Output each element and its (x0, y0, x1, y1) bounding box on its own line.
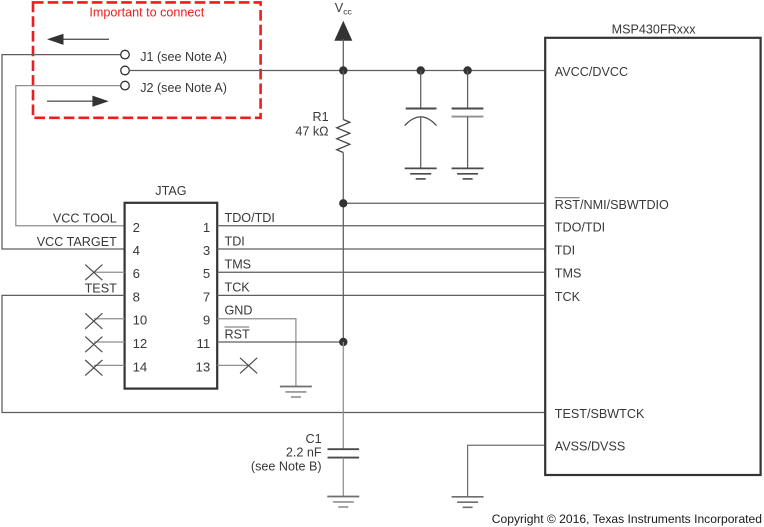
svg-text:AVSS/DVSS: AVSS/DVSS (555, 440, 625, 454)
no-connect X (pin 10) (85, 313, 102, 329)
svg-text:4: 4 (133, 243, 140, 258)
svg-text:7: 7 (203, 289, 210, 304)
svg-text:9: 9 (203, 313, 210, 328)
svg-text:2: 2 (133, 220, 140, 235)
ground (C1) (327, 497, 359, 508)
red highlight box (33, 2, 261, 117)
node: rail / R1 junction (339, 66, 347, 74)
svg-text:AVCC/DVCC: AVCC/DVCC (555, 65, 628, 79)
svg-text:47 kΩ: 47 kΩ (295, 125, 328, 139)
svg-text:J2 (see Note A): J2 (see Note A) (140, 81, 227, 95)
wire R1 bottom to RST node (342, 153, 344, 204)
wire pin13 stub (217, 364, 248, 366)
wire C2 to ground (420, 117, 422, 168)
MCU U1 MSP430FRxxx (545, 38, 760, 475)
wire pin10 stub (94, 318, 125, 320)
wire pin1 row (TDO/TDI) (217, 225, 545, 227)
Vcc arrow symbol (334, 21, 352, 41)
svg-text:MSP430FRxxx: MSP430FRxxx (612, 23, 697, 37)
svg-text:RST/NMI/SBWTDIO: RST/NMI/SBWTDIO (555, 198, 669, 212)
svg-text:12: 12 (133, 336, 148, 351)
svg-text:TMS: TMS (555, 267, 582, 281)
svg-text:TDI: TDI (555, 244, 575, 258)
svg-text:TCK: TCK (555, 290, 581, 304)
overline for RST (JTAG side) (225, 326, 250, 328)
svg-text:TEST: TEST (85, 282, 117, 296)
svg-text:R1: R1 (312, 110, 328, 124)
wire rail to R1 top (342, 71, 344, 120)
wire C3 to ground (467, 117, 469, 169)
arrow pointing right (47, 96, 109, 107)
wire AVSS/DVSS to ground (468, 445, 546, 497)
ground (JTAG GND pin 9) (280, 387, 312, 398)
C2 curved plate (405, 117, 437, 126)
capacitor C2 (polarized bypass) (405, 71, 437, 179)
node: rail / C2 junction (417, 66, 425, 74)
svg-text:8: 8 (133, 289, 140, 304)
arrow pointing left (47, 34, 109, 45)
svg-text:TCK: TCK (225, 281, 251, 295)
C3 top plate (452, 108, 484, 110)
svg-text:TDI: TDI (225, 234, 245, 248)
svg-text:TEST/SBWTCK: TEST/SBWTCK (555, 407, 645, 421)
svg-text:10: 10 (133, 313, 148, 328)
wire Vcc rail (center jumper pin to AVCC/DVCC) (129, 70, 545, 72)
svg-text:3: 3 (203, 243, 210, 258)
wire pin6 stub (94, 271, 125, 273)
jumper center pin (121, 66, 130, 75)
svg-text:C1: C1 (305, 432, 321, 446)
svg-text:TDO/TDI: TDO/TDI (225, 211, 275, 225)
no-connect X (pin 6) (85, 265, 102, 281)
jumper pin J1 (121, 50, 130, 59)
svg-text:VCC TOOL: VCC TOOL (53, 211, 117, 225)
svg-text:GND: GND (225, 304, 253, 318)
wire pin14 stub (94, 364, 125, 366)
resistor R1 (337, 120, 350, 153)
overline for RST (MCU pin) (555, 197, 580, 199)
ground (C3) (452, 167, 484, 169)
wire RST/NMI/SBWTDIO row (343, 202, 545, 204)
node: rail / C3 junction (463, 66, 471, 74)
svg-text:6: 6 (133, 266, 140, 281)
wire C1 to ground (342, 458, 344, 497)
wire pin9 to ground (217, 319, 296, 387)
wire pin3 row (TDI) (217, 248, 545, 250)
wire pin12 stub (94, 341, 125, 343)
svg-text:14: 14 (133, 359, 148, 374)
svg-text:1: 1 (203, 220, 210, 235)
no-connect X (pin 12) (85, 337, 102, 353)
svg-text:JTAG: JTAG (155, 184, 186, 198)
svg-text:(see Note B): (see Note B) (251, 460, 322, 474)
node: RST row junction (339, 199, 347, 207)
svg-text:11: 11 (196, 336, 210, 351)
wire RST node down to pin11 node (342, 203, 344, 342)
node: pin11 / C1 junction (339, 338, 347, 346)
svg-text:VCC TARGET: VCC TARGET (37, 235, 117, 249)
wire pin5 row (TMS) (217, 271, 545, 273)
capacitor C3 (bypass) (452, 71, 484, 179)
wire rail to C3 top plate (467, 71, 469, 109)
wire pin11 to RST node (217, 341, 343, 343)
C3 bottom plate (452, 116, 484, 118)
ground (C2) (405, 167, 437, 169)
ground (AVSS) (452, 497, 484, 508)
wire pin7 row (TCK) (217, 294, 545, 296)
wire C1 node to C1 top plate (342, 342, 344, 449)
JTAG connector J (125, 203, 218, 389)
wire Vcc stem (342, 39, 344, 71)
svg-text:TDO/TDI: TDO/TDI (555, 220, 605, 234)
C2 top plate (406, 108, 437, 110)
svg-text:5: 5 (203, 266, 210, 281)
svg-text:TMS: TMS (225, 258, 252, 272)
svg-text:2.2 nF: 2.2 nF (286, 446, 322, 460)
svg-text:RST: RST (225, 327, 250, 341)
wire J2 to JTAG pin 2 (16, 86, 125, 226)
svg-text:Important to connect: Important to connect (89, 6, 204, 20)
svg-text:13: 13 (196, 359, 211, 374)
wire rail to C2 top plate (420, 71, 422, 109)
svg-text:Copyright © 2016, Texas Instru: Copyright © 2016, Texas Instruments Inco… (492, 512, 762, 526)
no-connect X (pin 14) (85, 360, 102, 376)
wire TEST loop (pin 8 to TEST/SBWTCK) (2, 295, 545, 412)
no-connect X (pin 13) (240, 358, 257, 374)
wire J1 to JTAG pin 4 (2, 55, 125, 249)
svg-text:J1 (see Note A): J1 (see Note A) (140, 50, 227, 64)
capacitor C1 (328, 449, 360, 457)
jumper pin J2 (121, 81, 130, 90)
